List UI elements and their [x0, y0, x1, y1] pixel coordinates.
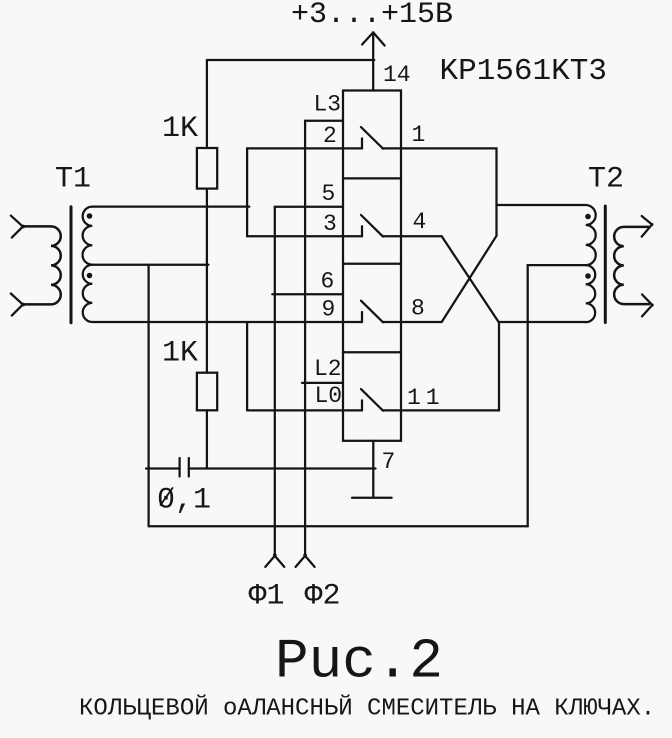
- svg-text:L3: L3: [314, 92, 342, 118]
- transformer T2 secondary winding: [614, 227, 649, 304]
- wire T1 secondary top terminal: [92, 205, 249, 207]
- svg-text:4: 4: [413, 209, 427, 235]
- switch SW2: [343, 215, 401, 237]
- wire pin 4 out: [401, 235, 442, 237]
- svg-text:T1: T1: [55, 163, 91, 197]
- input arrow F2: [296, 555, 315, 567]
- wire pin 12 stub: [302, 382, 343, 384]
- transformer T2 core: [604, 206, 607, 323]
- IC cell divider 1: [343, 177, 401, 179]
- svg-text:1: 1: [412, 122, 426, 148]
- wire cap right to pin 7: [189, 467, 376, 469]
- resistor R1: [197, 148, 217, 189]
- switch SW1: [343, 127, 401, 149]
- input arrow bottom left: [11, 294, 24, 316]
- wire pin 10 line: [247, 409, 343, 411]
- wire supply rail: [207, 59, 374, 61]
- polarity dot T2 mid: [585, 273, 591, 279]
- svg-text:T2: T2: [588, 163, 624, 197]
- wire pin 8 diagonal: [442, 236, 497, 322]
- svg-text:+3...+15B: +3...+15B: [291, 0, 453, 32]
- wire left loop riser: [147, 265, 149, 527]
- wire pin 4 diagonal: [442, 236, 499, 322]
- svg-text:9: 9: [322, 297, 336, 323]
- wire R2 bottom: [206, 410, 208, 468]
- input arrow F1: [265, 555, 284, 567]
- supply arrow: [362, 32, 385, 90]
- wire bus F1: [274, 207, 276, 556]
- svg-text:1K: 1K: [162, 112, 198, 146]
- wire R1 top drop: [206, 60, 208, 148]
- IC cell divider 2: [343, 263, 401, 265]
- capacitor C1 plates: [180, 458, 189, 477]
- wire vertical pins 2-3: [246, 148, 248, 236]
- wire T2 center tap: [528, 264, 586, 266]
- wire T1 center tap: [90, 264, 208, 266]
- svg-text:Puc.2: Puc.2: [275, 630, 443, 694]
- transformer T2 left winding top half: [586, 205, 596, 265]
- IC body KR1561KT3: [343, 91, 401, 441]
- svg-text:7: 7: [382, 449, 396, 475]
- wire pin 1 out: [401, 147, 497, 149]
- ground: [352, 497, 392, 499]
- svg-text:KP1561KT3: KP1561KT3: [440, 54, 607, 89]
- transformer T1 secondary bottom half: [83, 265, 93, 322]
- wire pin 11 riser: [498, 322, 500, 410]
- wire pin1/pin8 riser: [495, 148, 497, 235]
- output arrow top: [642, 216, 653, 237]
- wire cap left: [146, 467, 180, 469]
- transformer T1 primary winding: [23, 226, 61, 304]
- output arrow bottom: [642, 294, 653, 316]
- wire pin 3 line: [247, 235, 343, 237]
- wire vertical pin 10 riser: [246, 322, 248, 410]
- wire pin 7 stem: [372, 441, 374, 498]
- wire to T2 top: [497, 204, 586, 206]
- svg-text:5: 5: [322, 181, 336, 207]
- wire to T2 bottom: [499, 321, 586, 323]
- svg-text:КОЛЬЦЕВОЙ оАЛАНСНЬЙ СМЕСИТЕЛЬ: КОЛЬЦЕВОЙ оАЛАНСНЬЙ СМЕСИТЕЛЬ НА КЛЮЧАХ.: [79, 695, 655, 723]
- svg-text:0,1: 0,1: [157, 484, 211, 518]
- slash on zero: [161, 488, 173, 505]
- switch SW3: [343, 301, 401, 323]
- polarity dot T1 mid: [87, 273, 93, 279]
- transformer T1 secondary top half: [83, 207, 93, 265]
- polarity dot T2 top: [585, 214, 591, 220]
- svg-text:Ф1: Ф1: [249, 580, 285, 614]
- svg-text:2: 2: [323, 123, 337, 149]
- wire pin 13 stub: [305, 120, 343, 122]
- wire R1 to R2 divider: [206, 189, 208, 373]
- wire pin 8 out: [401, 321, 442, 323]
- svg-text:6: 6: [321, 269, 335, 295]
- input arrow top left: [11, 216, 24, 238]
- wire pin 11 out: [401, 409, 499, 411]
- transformer T2 left winding bottom half: [586, 265, 596, 322]
- wire bus F2: [304, 121, 306, 556]
- svg-text:14: 14: [383, 62, 411, 88]
- wire pin 6 stub: [272, 293, 343, 295]
- polarity dot T1 top: [87, 213, 93, 219]
- wire T2 tap drop: [527, 265, 529, 526]
- svg-text:L2: L2: [314, 356, 342, 382]
- IC cell divider 3: [343, 351, 401, 353]
- wire pin 2 line: [247, 147, 343, 149]
- svg-text:8: 8: [411, 296, 425, 322]
- svg-text:L0: L0: [315, 383, 343, 409]
- svg-text:Ф2: Ф2: [305, 580, 341, 614]
- transformer T1 core: [70, 207, 73, 323]
- wire pin 5 stub: [275, 206, 343, 208]
- switch SW4: [343, 389, 401, 411]
- svg-text:3: 3: [323, 211, 337, 237]
- svg-text:1K: 1K: [162, 337, 198, 371]
- wire bottom loop: [149, 525, 528, 527]
- wire T1 bottom / pin 9 line: [92, 321, 343, 323]
- svg-text:11: 11: [407, 385, 445, 411]
- resistor R2: [197, 373, 217, 411]
